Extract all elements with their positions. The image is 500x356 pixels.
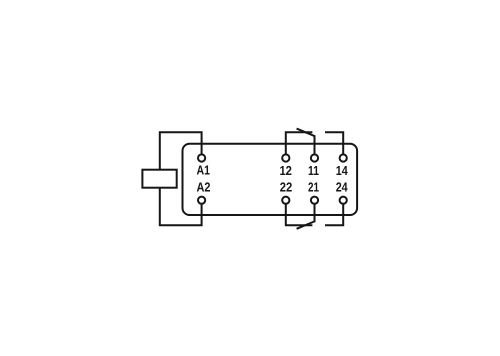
wire coil loop bottom (coil to A2) xyxy=(160,188,202,226)
pin 12 terminal xyxy=(282,154,289,161)
pin A1 terminal xyxy=(198,154,205,161)
svg-text:22: 22 xyxy=(280,180,293,195)
svg-text:14: 14 xyxy=(336,163,349,178)
svg-text:21: 21 xyxy=(308,180,319,195)
relay body outline xyxy=(183,144,358,215)
pin A2 terminal xyxy=(198,197,205,204)
coil K1 xyxy=(142,170,176,188)
svg-text:24: 24 xyxy=(336,180,349,195)
contact lever top (11 to 12, closed) xyxy=(297,129,315,136)
pin 24 terminal xyxy=(340,197,347,204)
wire pin 24 with NO contact bar xyxy=(325,200,343,225)
svg-text:A1: A1 xyxy=(197,163,211,178)
wire pin 22 with NC contact bar xyxy=(286,200,313,225)
pin 21 terminal xyxy=(311,197,318,204)
wire pin 12 with NC contact bar xyxy=(286,132,313,158)
svg-text:A2: A2 xyxy=(197,180,211,195)
svg-text:12: 12 xyxy=(279,163,292,178)
wire pin 14 with NO contact bar xyxy=(325,132,343,158)
svg-text:11: 11 xyxy=(308,163,319,178)
wire pin 11 (common) xyxy=(314,135,316,158)
pin 14 terminal xyxy=(340,154,347,161)
wire pin 21 (common) xyxy=(314,200,316,222)
pin 11 terminal xyxy=(311,154,318,161)
pin 22 terminal xyxy=(282,197,289,204)
wire coil loop top (A1 to coil) xyxy=(160,132,202,170)
contact lever bottom (21 to 22, closed) xyxy=(297,222,315,229)
